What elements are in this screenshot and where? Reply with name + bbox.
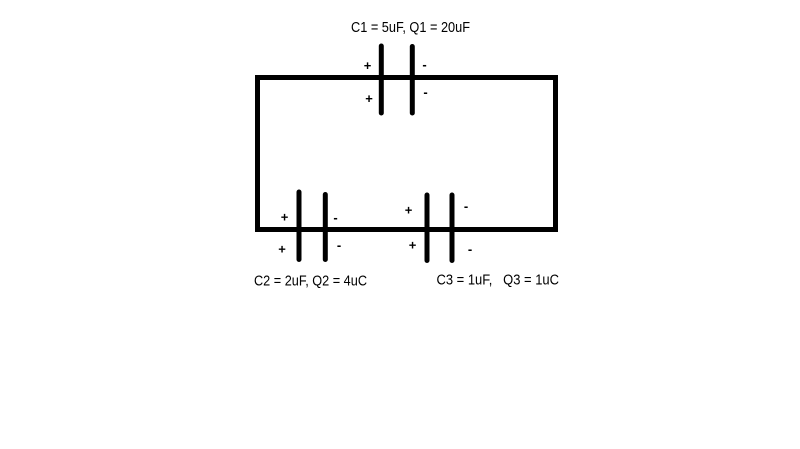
svg-text:+: + — [281, 210, 289, 225]
svg-text:-: - — [468, 242, 472, 257]
svg-text:C2 = 2uF, Q2 = 4uC: C2 = 2uF, Q2 = 4uC — [254, 273, 367, 290]
svg-text:+: + — [364, 58, 372, 73]
svg-text:-: - — [333, 210, 337, 225]
svg-text:-: - — [422, 57, 426, 72]
svg-text:+: + — [278, 242, 286, 257]
svg-text:C3 = 1uF, Q3 = 1uC: C3 = 1uF, Q3 = 1uC — [437, 272, 560, 289]
svg-text:+: + — [409, 238, 417, 253]
svg-text:-: - — [423, 85, 427, 100]
svg-text:C1 = 5uF, Q1 = 20uF: C1 = 5uF, Q1 = 20uF — [351, 19, 470, 36]
svg-text:+: + — [365, 91, 373, 106]
svg-text:-: - — [464, 199, 468, 214]
svg-text:+: + — [405, 203, 413, 218]
svg-text:-: - — [337, 238, 341, 253]
